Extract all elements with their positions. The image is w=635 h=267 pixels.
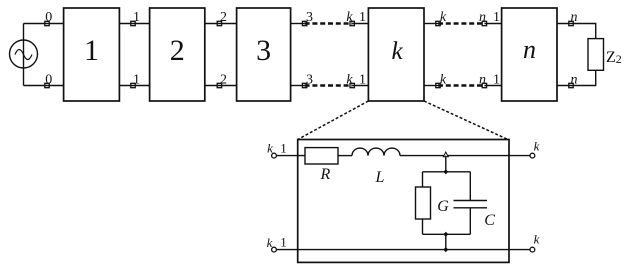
node dot on bottom rail xyxy=(443,247,448,252)
terminal square 2 top xyxy=(217,21,221,25)
wire GC bottom bar xyxy=(423,233,471,235)
AC source circle xyxy=(10,40,38,68)
wire junction down xyxy=(445,156,447,172)
svg-text:1: 1 xyxy=(133,72,140,87)
terminal square k-1 bottom xyxy=(350,83,354,87)
block 3 xyxy=(237,8,291,101)
terminal square k-1 top xyxy=(350,21,354,25)
wire bottom rail seg block k to terminal k xyxy=(424,85,438,87)
resistor R xyxy=(305,148,338,164)
zoom callout dashed lines xyxy=(298,101,509,140)
svg-text:1: 1 xyxy=(493,10,500,25)
wire top rail seg terminal n-1 to block n xyxy=(484,23,501,25)
svg-text:R: R xyxy=(320,166,331,183)
svg-text:2: 2 xyxy=(220,10,227,25)
wire C branch upper xyxy=(469,172,471,201)
detail labels xyxy=(267,139,540,250)
wire top rail seg block2-block3 xyxy=(205,23,237,25)
detail box of block k xyxy=(298,140,509,263)
svg-text:1: 1 xyxy=(280,235,287,250)
svg-text:3: 3 xyxy=(306,72,313,87)
block n xyxy=(502,8,557,101)
svg-text:3: 3 xyxy=(306,10,313,25)
wire GC top bar xyxy=(423,171,471,173)
svg-text:n: n xyxy=(479,10,486,25)
terminal square 1 top xyxy=(131,21,135,25)
node dot bottom of GC xyxy=(443,232,448,237)
wire top rail seg terminal k-1 to block k xyxy=(352,23,368,25)
wire top rail seg source-block1 xyxy=(24,23,64,25)
svg-text:1: 1 xyxy=(359,10,366,25)
wire top rail dashed seg terminal3 to terminal k-1 xyxy=(305,22,353,24)
resistor Z2 xyxy=(588,39,604,71)
wire top rail dashed seg terminal k to terminal n-1 xyxy=(438,22,484,24)
wire bottom rail seg terminal k-1 to block k xyxy=(352,85,368,87)
wire detail bottom rail xyxy=(276,249,530,251)
svg-text:1: 1 xyxy=(280,141,287,156)
node dot top of GC xyxy=(443,169,448,174)
svg-text:2: 2 xyxy=(170,34,185,67)
wire bottom rail seg block2-block3 xyxy=(205,85,237,87)
rail labels xyxy=(45,10,577,87)
wire R to L xyxy=(338,155,352,157)
terminal square 3 top xyxy=(302,21,306,25)
inductor L xyxy=(352,148,400,156)
terminal circle k-1 top left xyxy=(272,153,277,158)
svg-text:k: k xyxy=(440,72,447,87)
terminal square n-1 bottom xyxy=(482,83,486,87)
block k xyxy=(368,8,424,101)
wire bottom rail seg block n to Z2 corner xyxy=(557,70,596,85)
svg-text:k: k xyxy=(346,10,353,25)
dashed zoom line left xyxy=(298,101,369,140)
detail circuit xyxy=(272,140,535,263)
terminal square 0 bottom xyxy=(45,83,49,87)
wire bottom rail seg source-block1 xyxy=(24,85,64,87)
terminal circle k-1 bottom left xyxy=(272,247,277,252)
resistor G xyxy=(416,187,431,219)
svg-text:1: 1 xyxy=(84,34,99,67)
svg-text:k: k xyxy=(534,139,540,154)
svg-text:n: n xyxy=(479,72,486,87)
terminal square k top xyxy=(436,21,440,25)
wire top rail seg block3-terminal3 xyxy=(291,23,305,25)
terminal squares top rail xyxy=(45,21,573,87)
wire bottom rail seg block3-terminal3 xyxy=(291,85,305,87)
wire G branch upper xyxy=(422,172,424,187)
svg-text:0: 0 xyxy=(45,72,52,87)
dashed zoom line right xyxy=(424,101,509,140)
terminal square k bottom xyxy=(436,83,440,87)
svg-text:k: k xyxy=(346,72,353,87)
svg-text:Z2: Z2 xyxy=(606,49,622,66)
svg-text:C: C xyxy=(484,212,495,229)
block number labels xyxy=(84,34,622,67)
svg-text:n: n xyxy=(523,35,536,64)
terminal square n top xyxy=(569,21,573,25)
terminal square n bottom xyxy=(569,83,573,87)
terminal circle k top right xyxy=(530,153,535,158)
terminal square 3 bottom xyxy=(302,83,306,87)
svg-text:G: G xyxy=(437,198,449,215)
svg-text:k: k xyxy=(534,232,540,247)
svg-text:L: L xyxy=(375,169,385,186)
wire top rail seg block1-block2 xyxy=(119,23,149,25)
wire bottom rail seg terminal n-1 to block n xyxy=(484,85,501,87)
svg-text:1: 1 xyxy=(493,72,500,87)
svg-text:1: 1 xyxy=(133,10,140,25)
block 2 xyxy=(150,8,205,101)
wire terminal to R xyxy=(276,155,305,157)
terminal square 1 bottom xyxy=(131,83,135,87)
block 1 xyxy=(64,8,120,101)
wire L to right terminal xyxy=(400,155,530,157)
terminal square 2 bottom xyxy=(217,83,221,87)
capacitor C bottom plate xyxy=(454,207,488,209)
svg-text:k: k xyxy=(391,38,403,65)
svg-text:n: n xyxy=(571,10,578,25)
junction marker hollow triangle on top wire xyxy=(443,152,448,157)
wire source vertical xyxy=(23,24,25,86)
terminal circle k bottom right xyxy=(530,247,535,252)
svg-text:1: 1 xyxy=(359,72,366,87)
wire top rail seg block n to Z2 corner xyxy=(557,24,596,39)
wire bottom rail dashed seg terminal k to terminal n-1 xyxy=(438,84,484,86)
AC source sine xyxy=(15,50,32,60)
svg-text:3: 3 xyxy=(256,34,271,67)
svg-text:k: k xyxy=(267,235,273,250)
wire bottom rail seg block1-block2 xyxy=(119,85,149,87)
svg-text:0: 0 xyxy=(45,10,52,25)
wire G branch lower xyxy=(422,219,424,234)
svg-text:2: 2 xyxy=(220,72,227,87)
capacitor C top plate xyxy=(454,200,488,202)
svg-text:k: k xyxy=(440,10,447,25)
wire top rail seg block k to terminal k xyxy=(424,23,438,25)
svg-text:n: n xyxy=(571,72,578,87)
terminal square 0 top xyxy=(45,21,49,25)
terminal square n-1 top xyxy=(482,21,486,25)
svg-text:k: k xyxy=(267,141,273,156)
wire GC to bottom rail xyxy=(445,234,447,249)
wire C branch lower xyxy=(469,208,471,235)
wire bottom rail dashed seg terminal3 to terminal k-1 xyxy=(305,84,353,86)
